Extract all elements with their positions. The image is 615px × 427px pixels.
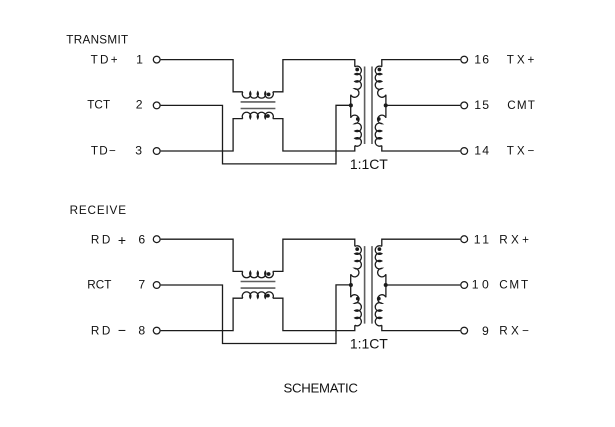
terminal pin 14 — [461, 148, 468, 155]
svg-text:TD+: TD+ — [91, 53, 120, 66]
svg-text:10: 10 — [472, 278, 492, 292]
polarity dot choke bottom winding (RECEIVE) — [266, 294, 270, 298]
junction center tap primary (TRANSMIT) — [349, 103, 353, 107]
terminal pin 7 (RECEIVE CT) — [153, 282, 160, 289]
polarity dot secondary upper (TRANSMIT) — [378, 68, 382, 72]
polarity dot choke top winding (TRANSMIT) — [267, 93, 271, 97]
wire secondary top to pin TX+/RX+ (TRANSMIT) — [382, 60, 461, 67]
svg-text:16: 16 — [474, 52, 490, 66]
svg-text:1:1CT: 1:1CT — [350, 156, 388, 172]
transformer secondary upper half winding (TRANSMIT) — [375, 66, 386, 116]
transformer secondary upper half winding (RECEIVE) — [375, 246, 386, 296]
wire secondary center tap to pin CMT (RECEIVE) — [386, 284, 460, 286]
transformer primary upper half winding (RECEIVE) — [351, 246, 362, 296]
terminal pin 11 — [461, 236, 468, 243]
svg-text:RECEIVE: RECEIVE — [70, 204, 127, 217]
terminal pin 10 — [461, 282, 468, 289]
terminal pin 2 (TRANSMIT CT) — [153, 102, 160, 109]
svg-text:RX−: RX− — [499, 324, 532, 337]
wire pin+ to choke top winding (TRANSMIT) — [161, 60, 243, 92]
transformer primary lower half winding (TRANSMIT) — [351, 115, 362, 146]
polarity dot primary lower (TRANSMIT) — [356, 117, 360, 121]
transformer core (TRANSMIT) — [365, 67, 372, 145]
svg-text:TCT: TCT — [87, 99, 110, 112]
transformer primary lower half winding (RECEIVE) — [351, 295, 362, 326]
terminal pin 3 (TRANSMIT -) — [153, 148, 160, 155]
wire choke bottom to transformer primary bottom (RECEIVE) — [273, 298, 355, 330]
svg-text:CMT: CMT — [507, 99, 536, 112]
svg-text:TRANSMIT: TRANSMIT — [66, 34, 128, 47]
terminal pin 1 (TRANSMIT +) — [153, 56, 160, 63]
wire pin- to choke bottom winding (RECEIVE) — [161, 298, 243, 330]
wire choke top to transformer primary top (RECEIVE) — [273, 239, 355, 271]
polarity dot secondary lower (RECEIVE) — [377, 297, 381, 301]
wire pin+ to choke top winding (RECEIVE) — [161, 239, 243, 271]
svg-text:11: 11 — [474, 233, 492, 247]
wire secondary top to pin TX+/RX+ (RECEIVE) — [382, 239, 461, 246]
svg-text:7: 7 — [138, 278, 145, 292]
polarity dot primary lower (RECEIVE) — [356, 297, 360, 301]
terminal pin 15 — [461, 102, 468, 109]
polarity dot secondary lower (TRANSMIT) — [377, 117, 381, 121]
terminal pin 8 (RECEIVE -) — [153, 327, 160, 334]
terminal pin 6 (RECEIVE +) — [153, 236, 160, 243]
svg-text:1:1CT: 1:1CT — [350, 336, 388, 352]
junction center tap secondary (RECEIVE) — [384, 283, 388, 287]
svg-text:TD−: TD− — [91, 145, 117, 158]
wire secondary center tap to pin CMT (TRANSMIT) — [386, 104, 460, 106]
svg-text:1: 1 — [136, 52, 143, 66]
transformer secondary lower half winding (RECEIVE) — [375, 295, 386, 326]
svg-text:RCT: RCT — [87, 279, 111, 292]
wire pin- to choke bottom winding (TRANSMIT) — [161, 119, 243, 151]
wire choke top to transformer primary top (TRANSMIT) — [273, 60, 355, 92]
wire secondary bottom to pin TX-/RX- (RECEIVE) — [382, 325, 461, 330]
svg-text:6: 6 — [138, 233, 145, 247]
polarity dot primary upper (RECEIVE) — [355, 247, 359, 251]
svg-text:TX−: TX− — [507, 145, 537, 158]
choke core (TRANSMIT) — [241, 102, 276, 109]
svg-text:15: 15 — [474, 98, 490, 112]
wire choke bottom to transformer primary bottom (TRANSMIT) — [273, 119, 355, 151]
choke L1 bottom winding (RECEIVE) — [242, 292, 273, 298]
svg-text:3: 3 — [135, 144, 142, 158]
svg-text:SCHEMATIC: SCHEMATIC — [284, 381, 359, 396]
svg-text:−: − — [118, 322, 126, 338]
svg-text:RD: RD — [91, 234, 113, 247]
polarity dot choke top winding (RECEIVE) — [267, 272, 271, 276]
svg-text:RX+: RX+ — [499, 234, 532, 247]
svg-text:TX+: TX+ — [507, 53, 537, 66]
svg-text:RD: RD — [91, 324, 113, 337]
choke L1 top winding (RECEIVE) — [242, 271, 273, 277]
svg-text:14: 14 — [474, 144, 490, 158]
choke core (RECEIVE) — [241, 282, 276, 289]
svg-text:9: 9 — [482, 324, 489, 338]
choke L1 bottom winding (TRANSMIT) — [242, 112, 273, 118]
wire pin CT to transformer primary center tap (TRANSMIT) — [161, 105, 351, 164]
terminal pin 16 — [461, 56, 468, 63]
terminal pin 9 — [461, 327, 468, 334]
wire pin CT to transformer primary center tap (RECEIVE) — [161, 285, 351, 344]
svg-text:+: + — [118, 232, 126, 248]
wire secondary bottom to pin TX-/RX- (TRANSMIT) — [382, 146, 461, 151]
svg-text:CMT: CMT — [499, 279, 530, 292]
choke L1 top winding (TRANSMIT) — [242, 92, 273, 98]
junction center tap secondary (TRANSMIT) — [384, 103, 388, 107]
transformer core (RECEIVE) — [365, 246, 372, 324]
svg-text:8: 8 — [138, 323, 145, 337]
svg-text:2: 2 — [136, 98, 143, 112]
junction center tap primary (RECEIVE) — [349, 283, 353, 287]
polarity dot choke bottom winding (TRANSMIT) — [266, 114, 270, 118]
polarity dot secondary upper (RECEIVE) — [378, 247, 382, 251]
transformer secondary lower half winding (TRANSMIT) — [375, 115, 386, 146]
transformer primary upper half winding (TRANSMIT) — [351, 66, 362, 116]
polarity dot primary upper (TRANSMIT) — [355, 68, 359, 72]
